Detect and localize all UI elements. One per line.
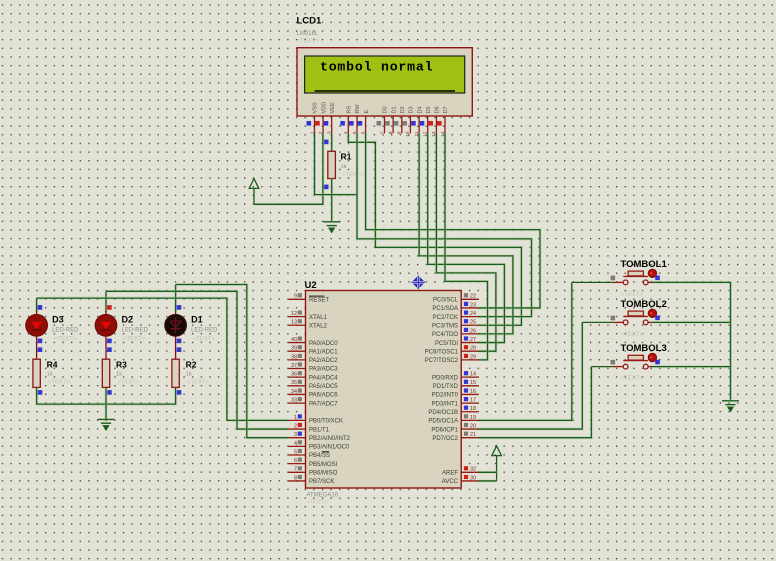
svg-text:LED-RED: LED-RED <box>52 328 79 334</box>
LED D1 labels <box>191 315 218 343</box>
push button TOMBOL1 <box>611 269 660 285</box>
wire TOMBOL3 to ground bus <box>652 365 731 368</box>
svg-text:tombol normal: tombol normal <box>320 60 433 75</box>
resistor R4 <box>33 359 40 387</box>
svg-text:U2: U2 <box>305 280 317 291</box>
svg-text:R1: R1 <box>341 152 352 162</box>
microcontroller U2 right pin names <box>425 298 459 486</box>
svg-text:6: 6 <box>294 458 297 464</box>
push button TOMBOL3 <box>611 353 660 369</box>
svg-text:VEE: VEE <box>330 102 336 113</box>
svg-text:25: 25 <box>470 320 476 326</box>
svg-text:D4: D4 <box>417 106 423 113</box>
svg-text:<TEXT>: <TEXT> <box>193 337 216 343</box>
svg-text:PC1/SDA: PC1/SDA <box>432 306 458 312</box>
microcontroller U2 part value ATMEGA16 <box>307 493 339 506</box>
svg-text:PD6/ICP1: PD6/ICP1 <box>431 427 458 433</box>
svg-text:LED-RED: LED-RED <box>122 328 149 334</box>
svg-text:PA1/ADC1: PA1/ADC1 <box>309 349 338 355</box>
svg-text:RS: RS <box>347 105 353 113</box>
LCD LCD1 pin numbers 1-14 <box>309 131 446 137</box>
svg-text:24: 24 <box>470 311 476 317</box>
svg-text:13: 13 <box>291 320 297 326</box>
svg-text:PC0/SCL: PC0/SCL <box>433 298 459 304</box>
svg-text:E: E <box>364 110 370 114</box>
svg-text:22: 22 <box>470 294 476 300</box>
svg-text:<TEXT>: <TEXT> <box>187 380 209 386</box>
svg-text:XTAL2: XTAL2 <box>309 323 328 329</box>
wire PD6 pin20 to TOMBOL2 feed <box>479 322 583 429</box>
resistor R3 <box>102 359 109 387</box>
svg-text:PD5/OC1A: PD5/OC1A <box>428 419 458 425</box>
svg-text:D1: D1 <box>391 106 397 113</box>
resistor R3 labels <box>116 360 140 386</box>
resistor R2 <box>172 359 179 387</box>
svg-text:TOMBOL3: TOMBOL3 <box>621 343 667 354</box>
microcontroller U2 label <box>305 280 317 291</box>
svg-text:VDD: VDD <box>321 102 327 114</box>
resistor R1 <box>328 151 336 178</box>
wire D6 to PC6 pin28 <box>436 133 496 351</box>
ground for buttons <box>722 401 739 411</box>
LED D3 <box>26 314 48 336</box>
wire LCD pin1 VSS to ground net <box>315 133 358 194</box>
wire D3 anode drop <box>35 298 38 312</box>
junction square above R1 <box>324 140 329 145</box>
svg-text:PD4/OC1B: PD4/OC1B <box>428 410 458 416</box>
svg-text:AREF: AREF <box>442 471 458 477</box>
resistor R4 labels <box>47 360 71 386</box>
svg-text:PC3/TMS: PC3/TMS <box>432 323 458 329</box>
wire power to LCD pin2 VDD <box>254 133 323 204</box>
svg-text:16: 16 <box>470 389 476 395</box>
wire D1 to PB2 pin3 <box>176 285 289 438</box>
LED D2 pin stubs <box>105 311 107 359</box>
wire TOMBOL2 to ground bus <box>652 321 731 324</box>
svg-text:PD3/INT1: PD3/INT1 <box>432 401 459 407</box>
wire PD7 pin21 to TOMBOL3 feed <box>479 367 592 438</box>
svg-text:<TEXT>: <TEXT> <box>621 292 644 298</box>
svg-text:1k: 1k <box>116 372 122 378</box>
svg-text:1k: 1k <box>186 372 192 378</box>
svg-text:1: 1 <box>294 415 297 421</box>
wire PD to TOMBOL3 <box>591 366 612 368</box>
wire R1 bottom to ground <box>330 179 333 221</box>
svg-text:34: 34 <box>291 389 297 395</box>
svg-text:1k: 1k <box>341 164 347 170</box>
power symbol +5V (LCD VDD) <box>249 179 259 205</box>
svg-text:9: 9 <box>294 294 297 300</box>
svg-text:26: 26 <box>470 328 476 334</box>
push button TOMBOL1 label <box>621 259 668 298</box>
wire PD to TOMBOL2 <box>582 321 612 323</box>
wire RS to PC3 pin25 <box>348 133 521 325</box>
svg-text:ATMEGA16: ATMEGA16 <box>307 493 339 499</box>
svg-text:D0: D0 <box>383 106 389 113</box>
microcontroller U2 left pin stubs <box>288 299 305 481</box>
svg-text:40: 40 <box>291 337 297 343</box>
svg-text:38: 38 <box>291 354 297 360</box>
svg-text:29: 29 <box>470 354 476 360</box>
LCD LCD1 body <box>297 48 472 116</box>
svg-text:PA3/ADC3: PA3/ADC3 <box>309 367 338 373</box>
svg-text:19: 19 <box>470 415 476 421</box>
svg-text:35: 35 <box>291 380 297 386</box>
svg-text:TOMBOL1: TOMBOL1 <box>621 259 668 270</box>
svg-text:<TEXT>: <TEXT> <box>342 172 364 178</box>
wire D7 to PC7 pin29 <box>445 133 488 360</box>
svg-text:LED-RED: LED-RED <box>191 328 218 334</box>
svg-text:AVCC: AVCC <box>442 479 459 485</box>
microcontroller U2 left pin names <box>309 296 351 485</box>
svg-text:7: 7 <box>379 131 385 134</box>
svg-text:TOMBOL2: TOMBOL2 <box>621 299 667 310</box>
wire TOMBOL1 to ground bus <box>652 282 731 399</box>
svg-text:PA7/ADC7: PA7/ADC7 <box>309 401 338 407</box>
svg-text:R3: R3 <box>116 360 127 370</box>
LCD LCD1 pin stubs 1-14 <box>315 116 446 133</box>
svg-text:LCD1: LCD1 <box>297 16 323 27</box>
svg-text:<TEXT>: <TEXT> <box>621 332 644 338</box>
svg-text:PB1/T1: PB1/T1 <box>309 427 330 433</box>
wire D3 to PB0 pin1 <box>37 298 289 420</box>
svg-text:D2: D2 <box>122 315 134 325</box>
LED D2 labels <box>122 315 149 343</box>
svg-text:5: 5 <box>294 449 297 455</box>
svg-text:PA6/ADC6: PA6/ADC6 <box>309 393 338 399</box>
resistor R2 labels <box>186 360 210 386</box>
svg-text:PD2/INT0: PD2/INT0 <box>432 393 459 399</box>
resistor R4 bottom state square <box>38 390 43 395</box>
svg-text:18: 18 <box>470 406 476 412</box>
svg-text:D1: D1 <box>191 315 203 325</box>
svg-text:PD0/RXD: PD0/RXD <box>432 375 459 381</box>
svg-text:PD7/OC2: PD7/OC2 <box>432 436 458 442</box>
svg-text:PC7/TOSC2: PC7/TOSC2 <box>425 358 459 364</box>
LED D3 state squares <box>38 305 43 352</box>
svg-text:RW: RW <box>355 104 361 114</box>
wire D1 anode drop <box>174 285 177 313</box>
svg-text:PA4/ADC4: PA4/ADC4 <box>309 375 338 381</box>
svg-text:1k: 1k <box>47 372 53 378</box>
svg-text:PC6/TOSC1: PC6/TOSC1 <box>425 349 459 355</box>
svg-text:7: 7 <box>294 467 297 473</box>
svg-text:D2: D2 <box>400 106 406 113</box>
svg-text:10: 10 <box>405 131 411 137</box>
wire PD to TOMBOL1 <box>572 281 613 283</box>
svg-text:D7: D7 <box>443 106 449 113</box>
svg-text:<TEXT>: <TEXT> <box>54 337 77 343</box>
svg-text:PB3/AIN1/OC0: PB3/AIN1/OC0 <box>309 445 350 451</box>
svg-text:28: 28 <box>470 346 476 352</box>
microcontroller U2 left pin state squares <box>298 293 302 479</box>
svg-text:23: 23 <box>470 302 476 308</box>
svg-text:PB0/T0/XCK: PB0/T0/XCK <box>309 419 343 425</box>
resistor R3 bottom state square <box>107 390 112 395</box>
LCD LCD1 pin state squares <box>307 121 442 126</box>
svg-text:<TEXT>: <TEXT> <box>621 376 644 382</box>
svg-text:36: 36 <box>291 372 297 378</box>
svg-text:RESET: RESET <box>309 298 329 304</box>
svg-text:39: 39 <box>291 346 297 352</box>
svg-text:PC2/TCK: PC2/TCK <box>433 315 458 321</box>
svg-text:R4: R4 <box>47 360 58 370</box>
wire D2 to PB1 pin2 <box>106 291 288 429</box>
LED D3 labels <box>52 315 79 343</box>
svg-text:27: 27 <box>470 337 476 343</box>
svg-text:PB6/MISO: PB6/MISO <box>309 471 338 477</box>
wire R3 bottom to ground <box>105 388 108 419</box>
svg-text:32: 32 <box>470 467 476 473</box>
LED D2 <box>95 314 117 336</box>
svg-text:PB7/SCK: PB7/SCK <box>309 479 334 485</box>
svg-text:PC5/TDI: PC5/TDI <box>435 341 458 347</box>
svg-text:8: 8 <box>388 131 394 134</box>
junction square below R1 <box>324 185 329 190</box>
svg-text:PB4/SS: PB4/SS <box>309 453 330 459</box>
wire LED resistors common bottom <box>37 388 176 405</box>
svg-text:PB5/MOSI: PB5/MOSI <box>309 462 338 468</box>
svg-text:4: 4 <box>294 441 297 447</box>
wire D2 anode drop <box>105 291 108 312</box>
svg-text:21: 21 <box>470 432 476 438</box>
svg-text:14: 14 <box>470 372 476 378</box>
microcontroller U2 right pin state squares <box>464 293 468 479</box>
svg-text:30: 30 <box>470 475 476 481</box>
svg-text:D3: D3 <box>409 106 415 113</box>
svg-text:PA2/ADC2: PA2/ADC2 <box>309 358 338 364</box>
svg-text:33: 33 <box>291 398 297 404</box>
svg-text:PC4/TDO: PC4/TDO <box>432 332 458 338</box>
svg-text:<TEXT>: <TEXT> <box>123 337 146 343</box>
svg-text:PD1/TXD: PD1/TXD <box>433 384 459 390</box>
svg-text:D6: D6 <box>435 106 441 113</box>
power symbol +5V (AVCC) <box>492 446 502 481</box>
wire RW to PC2 pin24 <box>357 133 532 316</box>
origin marker (blue move cross) <box>412 276 426 290</box>
svg-text:<TEXT>: <TEXT> <box>118 380 140 386</box>
push button TOMBOL3 label <box>621 343 667 382</box>
ground under R1 <box>323 222 340 232</box>
svg-text:R2: R2 <box>186 360 197 370</box>
LED D1 state squares <box>177 305 182 352</box>
svg-text:VSS: VSS <box>313 102 319 113</box>
resistor R1 labels <box>341 152 365 179</box>
svg-text:3: 3 <box>294 432 297 438</box>
wire E to PC1 pin23 <box>366 133 540 308</box>
svg-text:D5: D5 <box>426 106 432 113</box>
push button TOMBOL2 label <box>621 299 667 338</box>
svg-text:37: 37 <box>291 363 297 369</box>
microcontroller U2 right pin numbers <box>470 294 476 482</box>
LED D1 pin stubs <box>175 311 177 359</box>
svg-text:D3: D3 <box>52 315 64 325</box>
wire PD5 pin19 to TOMBOL1 feed <box>479 282 572 420</box>
microcontroller U2 left pin numbers <box>291 294 297 482</box>
svg-text:<TEXT>: <TEXT> <box>48 380 70 386</box>
svg-text:17: 17 <box>470 398 476 404</box>
LED D3 pin stubs <box>36 311 38 359</box>
LCD LCD1 screen <box>305 56 465 93</box>
wire D4 to PC4 pin26 <box>419 133 513 334</box>
svg-text:9: 9 <box>397 131 403 134</box>
svg-text:20: 20 <box>470 423 476 429</box>
svg-text:12: 12 <box>291 311 297 317</box>
ground for LEDs <box>98 419 115 429</box>
svg-text:8: 8 <box>294 475 297 481</box>
LED D1 <box>165 314 187 336</box>
svg-text:<TEXT>: <TEXT> <box>297 39 320 45</box>
svg-text:XTAL1: XTAL1 <box>309 315 328 321</box>
LED D2 state squares <box>107 305 112 352</box>
svg-text:PA5/ADC5: PA5/ADC5 <box>309 384 338 390</box>
svg-text:PA0/ADC0: PA0/ADC0 <box>309 341 338 347</box>
wire D5 to PC5 pin27 <box>428 133 505 342</box>
svg-text:PB2/AIN0/INT2: PB2/AIN0/INT2 <box>309 436 351 442</box>
microcontroller U2 ATMEGA16 body <box>306 291 462 489</box>
wire AVCC to power <box>479 479 497 482</box>
svg-text:15: 15 <box>470 380 476 386</box>
wire AREF to power <box>479 471 497 474</box>
LCD LCD1 pin name labels VSS..D7 <box>313 102 450 114</box>
svg-text:2: 2 <box>294 423 297 429</box>
microcontroller U2 right pin stubs <box>461 299 478 481</box>
wire LCD pin3 VEE to R1 top <box>330 133 333 151</box>
svg-text:<TEXT>: <TEXT> <box>307 500 327 506</box>
LCD LCD1 label <box>297 16 323 45</box>
push button TOMBOL2 <box>611 309 660 325</box>
svg-text:LM016L: LM016L <box>297 31 319 37</box>
resistor R2 bottom state square <box>177 390 182 395</box>
